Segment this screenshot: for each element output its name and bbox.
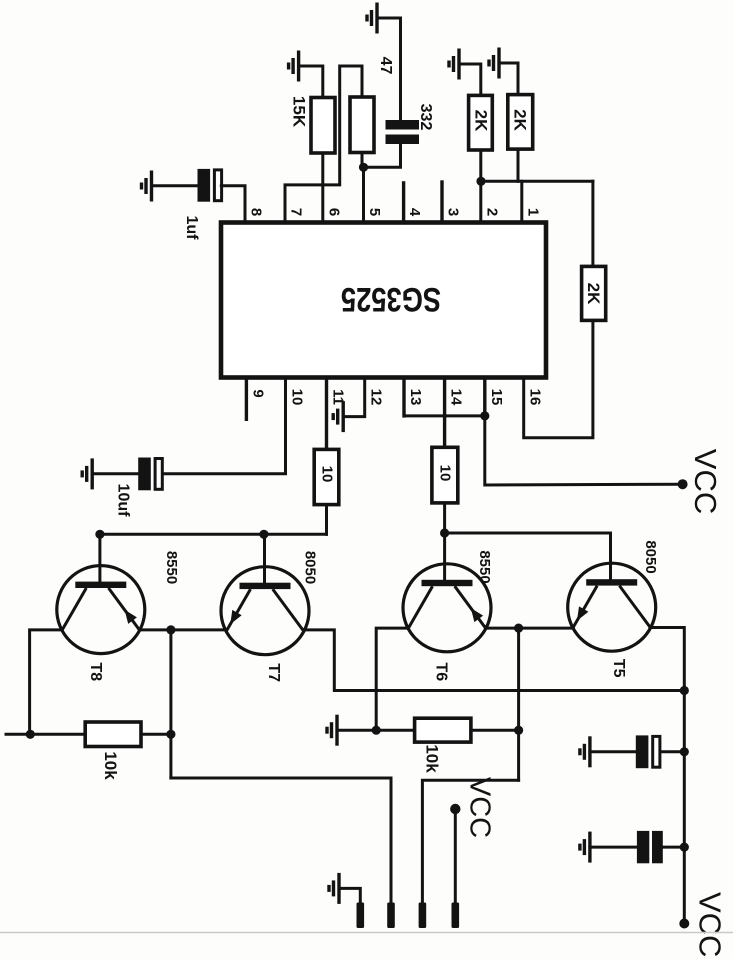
wire R 10k right to junction [471, 729, 519, 732]
wire bus to pin 1 [520, 181, 523, 222]
junction rail cap 2 [680, 843, 689, 852]
svg-text:5: 5 [366, 208, 383, 216]
wire C 10uf to pin 10 [163, 378, 286, 474]
wire T6 to T5 emitters [486, 627, 574, 630]
wire T6 left leg down [376, 628, 408, 730]
connector pad 1 [357, 903, 365, 929]
wire ground to R 2K right [499, 63, 518, 95]
wire VCC to pad 4 [454, 809, 457, 903]
wire R 47 to node A [361, 153, 364, 167]
svg-text:13: 13 [407, 389, 424, 406]
wire ground to pin 12 [343, 378, 365, 417]
junction rail / T7 run [680, 686, 689, 695]
resistor R 10k (left) [85, 722, 141, 747]
wire ground to C 332 [377, 18, 401, 120]
ground (332 cap) [367, 3, 377, 34]
resistor R 2K (feedback) [582, 266, 606, 320]
transistor T8 (8550) [57, 566, 145, 654]
wire cap 2 to rail [663, 846, 685, 849]
ground (pad 1) [329, 873, 339, 904]
svg-text:SG3525: SG3525 [341, 280, 441, 318]
svg-text:14: 14 [448, 389, 465, 406]
resistor R 15K [311, 98, 335, 154]
svg-text:6: 6 [325, 208, 342, 216]
ground (1uf cap) [142, 171, 152, 202]
wire R 2K feedback to pin 16 [524, 320, 593, 437]
svg-text:12: 12 [368, 389, 385, 406]
wire ground to C 1uf [152, 184, 198, 187]
svg-text:8550: 8550 [476, 550, 493, 583]
wire left node to R 10k left [30, 733, 85, 736]
wire bus down to R 2K feedback top [591, 181, 594, 266]
svg-text:16: 16 [527, 389, 544, 406]
junction T6 base [440, 528, 449, 537]
svg-text:1: 1 [524, 208, 541, 216]
svg-text:4: 4 [406, 208, 423, 217]
wire ground to pad 1 [339, 888, 360, 902]
wire junction to R 10k right [376, 729, 414, 732]
svg-text:VCC: VCC [464, 777, 496, 838]
svg-text:8550: 8550 [163, 551, 180, 584]
wire base bus right to T5 base [445, 533, 611, 579]
svg-text:15K: 15K [290, 96, 309, 128]
ground (pin 7 net) [289, 51, 299, 82]
transistor T7 (8050) [221, 567, 309, 655]
ground (pin 12) [333, 401, 343, 432]
wire T7 base stem [263, 534, 266, 582]
capacitor C 332 [386, 120, 420, 144]
ground (10uf cap) [82, 458, 92, 489]
ground (cap VCC 1) [580, 736, 590, 767]
resistor R 47 [350, 97, 374, 153]
svg-text:3: 3 [445, 208, 462, 216]
svg-text:VCC: VCC [692, 892, 727, 957]
junction R 10k right side [514, 726, 523, 735]
node A junction (pin 5) [359, 163, 368, 172]
svg-text:T6: T6 [433, 662, 450, 681]
wire junction down right [517, 628, 520, 780]
resistor R 10k (right) [415, 718, 471, 742]
wire C 332 to node A [364, 144, 401, 167]
scan artifact line (decorative) [0, 932, 733, 934]
wire to pad 3 [422, 780, 518, 902]
wire T8 left leg to left node [30, 630, 63, 734]
pin 11 stub [325, 378, 328, 449]
ground (2K right) [489, 48, 499, 79]
wire R 10 to base bus right [443, 503, 446, 533]
VCC terminal (bottom right) [679, 919, 689, 929]
ground (right 10k) [327, 715, 337, 746]
pin 4 stub [402, 183, 405, 222]
svg-text:2: 2 [484, 208, 501, 216]
svg-text:10k: 10k [101, 751, 120, 780]
wire base bus left [100, 533, 327, 536]
wire R 10k left to junction [141, 733, 171, 736]
wire C 1uf to pin 8 [221, 186, 245, 222]
VCC terminal (right) [678, 479, 688, 489]
wire R 15K to pin 6 [321, 153, 324, 222]
wire T6 base stem [443, 533, 446, 580]
wire ground to C 10uf [92, 472, 138, 475]
wire junction down [169, 630, 172, 778]
svg-text:1uf: 1uf [183, 216, 200, 241]
wire T7 right leg to VCC rail [306, 630, 684, 691]
wire ground to R 15K top [299, 66, 323, 98]
svg-text:7: 7 [288, 208, 305, 216]
svg-text:2K: 2K [584, 283, 603, 305]
capacitor C 10uf (polarized) [138, 458, 162, 491]
wire node A to pin 5 [362, 167, 365, 222]
junction T7 base [259, 530, 268, 539]
connector pad 2 [387, 903, 395, 929]
svg-text:T5: T5 [610, 659, 627, 678]
resistor R 2K (left) [469, 95, 493, 150]
wire pin 15 to VCC [485, 416, 683, 485]
svg-text:8050: 8050 [302, 551, 319, 584]
wire pin 7 to R 47 top [285, 66, 362, 222]
pin 9 stub [245, 378, 248, 419]
pin 14 stub [443, 378, 446, 447]
junction pins 1-2 bus [476, 177, 485, 186]
svg-text:15: 15 [488, 389, 505, 406]
connector pad 4 [452, 903, 460, 929]
svg-text:10: 10 [319, 466, 336, 483]
svg-text:332: 332 [417, 104, 434, 131]
junction T6-T5 emitters [514, 624, 523, 633]
junction rail cap 1 [680, 747, 689, 756]
wire ground to cap 2 [590, 846, 637, 849]
junction left node [26, 730, 35, 739]
resistor R 10 (pin 14) [432, 447, 458, 503]
svg-text:10uf: 10uf [114, 484, 131, 518]
capacitor C VCC bypass 2 [637, 831, 663, 863]
resistor R 10 (pin 11) [314, 449, 339, 504]
op-amp U1 SG3525 PWM controller IC body [221, 223, 546, 378]
wire pin 13 to pin 15 [404, 414, 485, 417]
svg-text:10: 10 [289, 389, 306, 406]
junction emitter link [166, 625, 175, 634]
wire to pad 2 [171, 778, 391, 903]
wire T8 base stem [98, 534, 101, 581]
wire ground to junction [337, 729, 376, 732]
svg-text:8050: 8050 [642, 540, 659, 573]
connector pad 3 [419, 903, 427, 929]
svg-text:T7: T7 [265, 663, 282, 682]
wire R 10 to base bus left [325, 505, 328, 535]
pin 15 stub [483, 378, 486, 416]
junction T8 base [95, 530, 104, 539]
wire T5 right leg VCC rail [650, 628, 684, 924]
wire left stub [6, 733, 30, 736]
resistor R 2K (right) [508, 95, 533, 150]
junction T6 left / ground [372, 726, 381, 735]
svg-text:9: 9 [249, 389, 266, 397]
transistor T6 (8550) [403, 564, 491, 652]
wire ground to cap [590, 750, 636, 753]
svg-text:8: 8 [248, 208, 265, 216]
ground (2K left) [449, 49, 459, 80]
svg-text:2K: 2K [511, 109, 530, 131]
pin 3 stub [440, 182, 443, 222]
svg-text:T8: T8 [87, 662, 104, 681]
wire R 2K right to bus [517, 149, 520, 181]
capacitor C 1uf (polarized) [198, 169, 222, 202]
svg-text:10k: 10k [423, 744, 442, 773]
wire cap to rail [660, 750, 684, 753]
transistor T5 (8050) [568, 563, 656, 651]
svg-text:47: 47 [377, 57, 394, 75]
junction pin 15 [480, 411, 489, 420]
wire R 2K left to pin 2 [479, 150, 482, 222]
pin 13 stub [402, 378, 405, 416]
wire ground to R 2K left [459, 64, 481, 95]
capacitor C VCC bypass (polarized) [636, 735, 660, 768]
svg-text:10: 10 [436, 465, 453, 482]
junction R 10k left right side [166, 730, 175, 739]
svg-text:VCC: VCC [688, 449, 723, 514]
svg-text:2K: 2K [472, 110, 491, 132]
VCC terminal (middle) [450, 804, 460, 814]
ground (cap VCC 2) [580, 832, 590, 863]
wire bus to R 2K feedback [481, 180, 593, 183]
wire T8 to T7 emitters [139, 628, 224, 631]
